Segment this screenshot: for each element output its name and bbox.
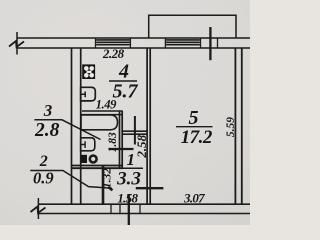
- svg-text:2.58: 2.58: [134, 134, 149, 158]
- window W1 kitchen hatch: [96, 40, 130, 45]
- svg-text:5.7: 5.7: [113, 81, 139, 103]
- leader room 2: [30, 171, 112, 189]
- svg-text:2.8: 2.8: [34, 120, 60, 141]
- fraction line room 4: [109, 80, 137, 82]
- door room5 leaf stroke: [136, 187, 164, 189]
- window W2 room5 hatch: [166, 40, 200, 45]
- leader room 3: [34, 120, 100, 140]
- wall left exterior: [71, 48, 73, 204]
- kitchen sink: [81, 87, 96, 101]
- svg-text:1.32: 1.32: [102, 168, 114, 188]
- door balcony leaf stroke: [209, 27, 211, 60]
- door bathroom leaf stroke: [109, 148, 134, 150]
- stove: [82, 64, 95, 79]
- wall kitchen-hall: [122, 131, 147, 134]
- window W2 room5 jambs: [165, 38, 217, 48]
- svg-text:4: 4: [118, 61, 129, 83]
- svg-text:5: 5: [189, 107, 199, 129]
- window W1 kitchen jambs: [96, 38, 131, 48]
- door kitchen leaf stroke: [134, 116, 136, 145]
- break zigzag top-left: [9, 41, 24, 47]
- wall break stub top-left: [16, 32, 18, 55]
- paper background: [0, 0, 250, 225]
- svg-text:3.07: 3.07: [183, 190, 205, 205]
- break zigzag bottom-left: [31, 207, 46, 214]
- svg-text:3.3: 3.3: [116, 168, 141, 189]
- svg-text:17.2: 17.2: [181, 127, 213, 148]
- wall top exterior band: [17, 37, 250, 39]
- washbasin: [81, 138, 95, 151]
- fraction line room 1: [122, 167, 143, 169]
- wall bath-wc: [72, 166, 123, 169]
- svg-text:2.28: 2.28: [102, 46, 125, 61]
- entrance door jambs in bottom wall: [111, 204, 140, 213]
- wall bath-hall vertical: [120, 111, 123, 168]
- svg-text:3: 3: [43, 101, 53, 120]
- toilet: [81, 155, 96, 163]
- balcony outline: [149, 15, 236, 38]
- wall bottom exterior band: [38, 203, 250, 205]
- door entrance leaf stroke: [128, 195, 130, 226]
- wall interior main (hall/kitchen vs room5): [146, 48, 148, 204]
- wall kitchen-bath (1.49 dim line): [82, 110, 123, 112]
- wall break stub bottom-left: [37, 198, 39, 219]
- wall wc right: [102, 166, 105, 205]
- svg-text:5.59: 5.59: [225, 117, 237, 137]
- svg-text:1.83: 1.83: [107, 132, 119, 152]
- bathtub: [81, 115, 118, 130]
- wall right exterior: [234, 48, 236, 204]
- svg-text:0.9: 0.9: [33, 168, 54, 187]
- leader room 2 arrowhead: [108, 187, 113, 190]
- svg-text:1.58: 1.58: [117, 191, 138, 206]
- fraction line room 5: [176, 126, 213, 128]
